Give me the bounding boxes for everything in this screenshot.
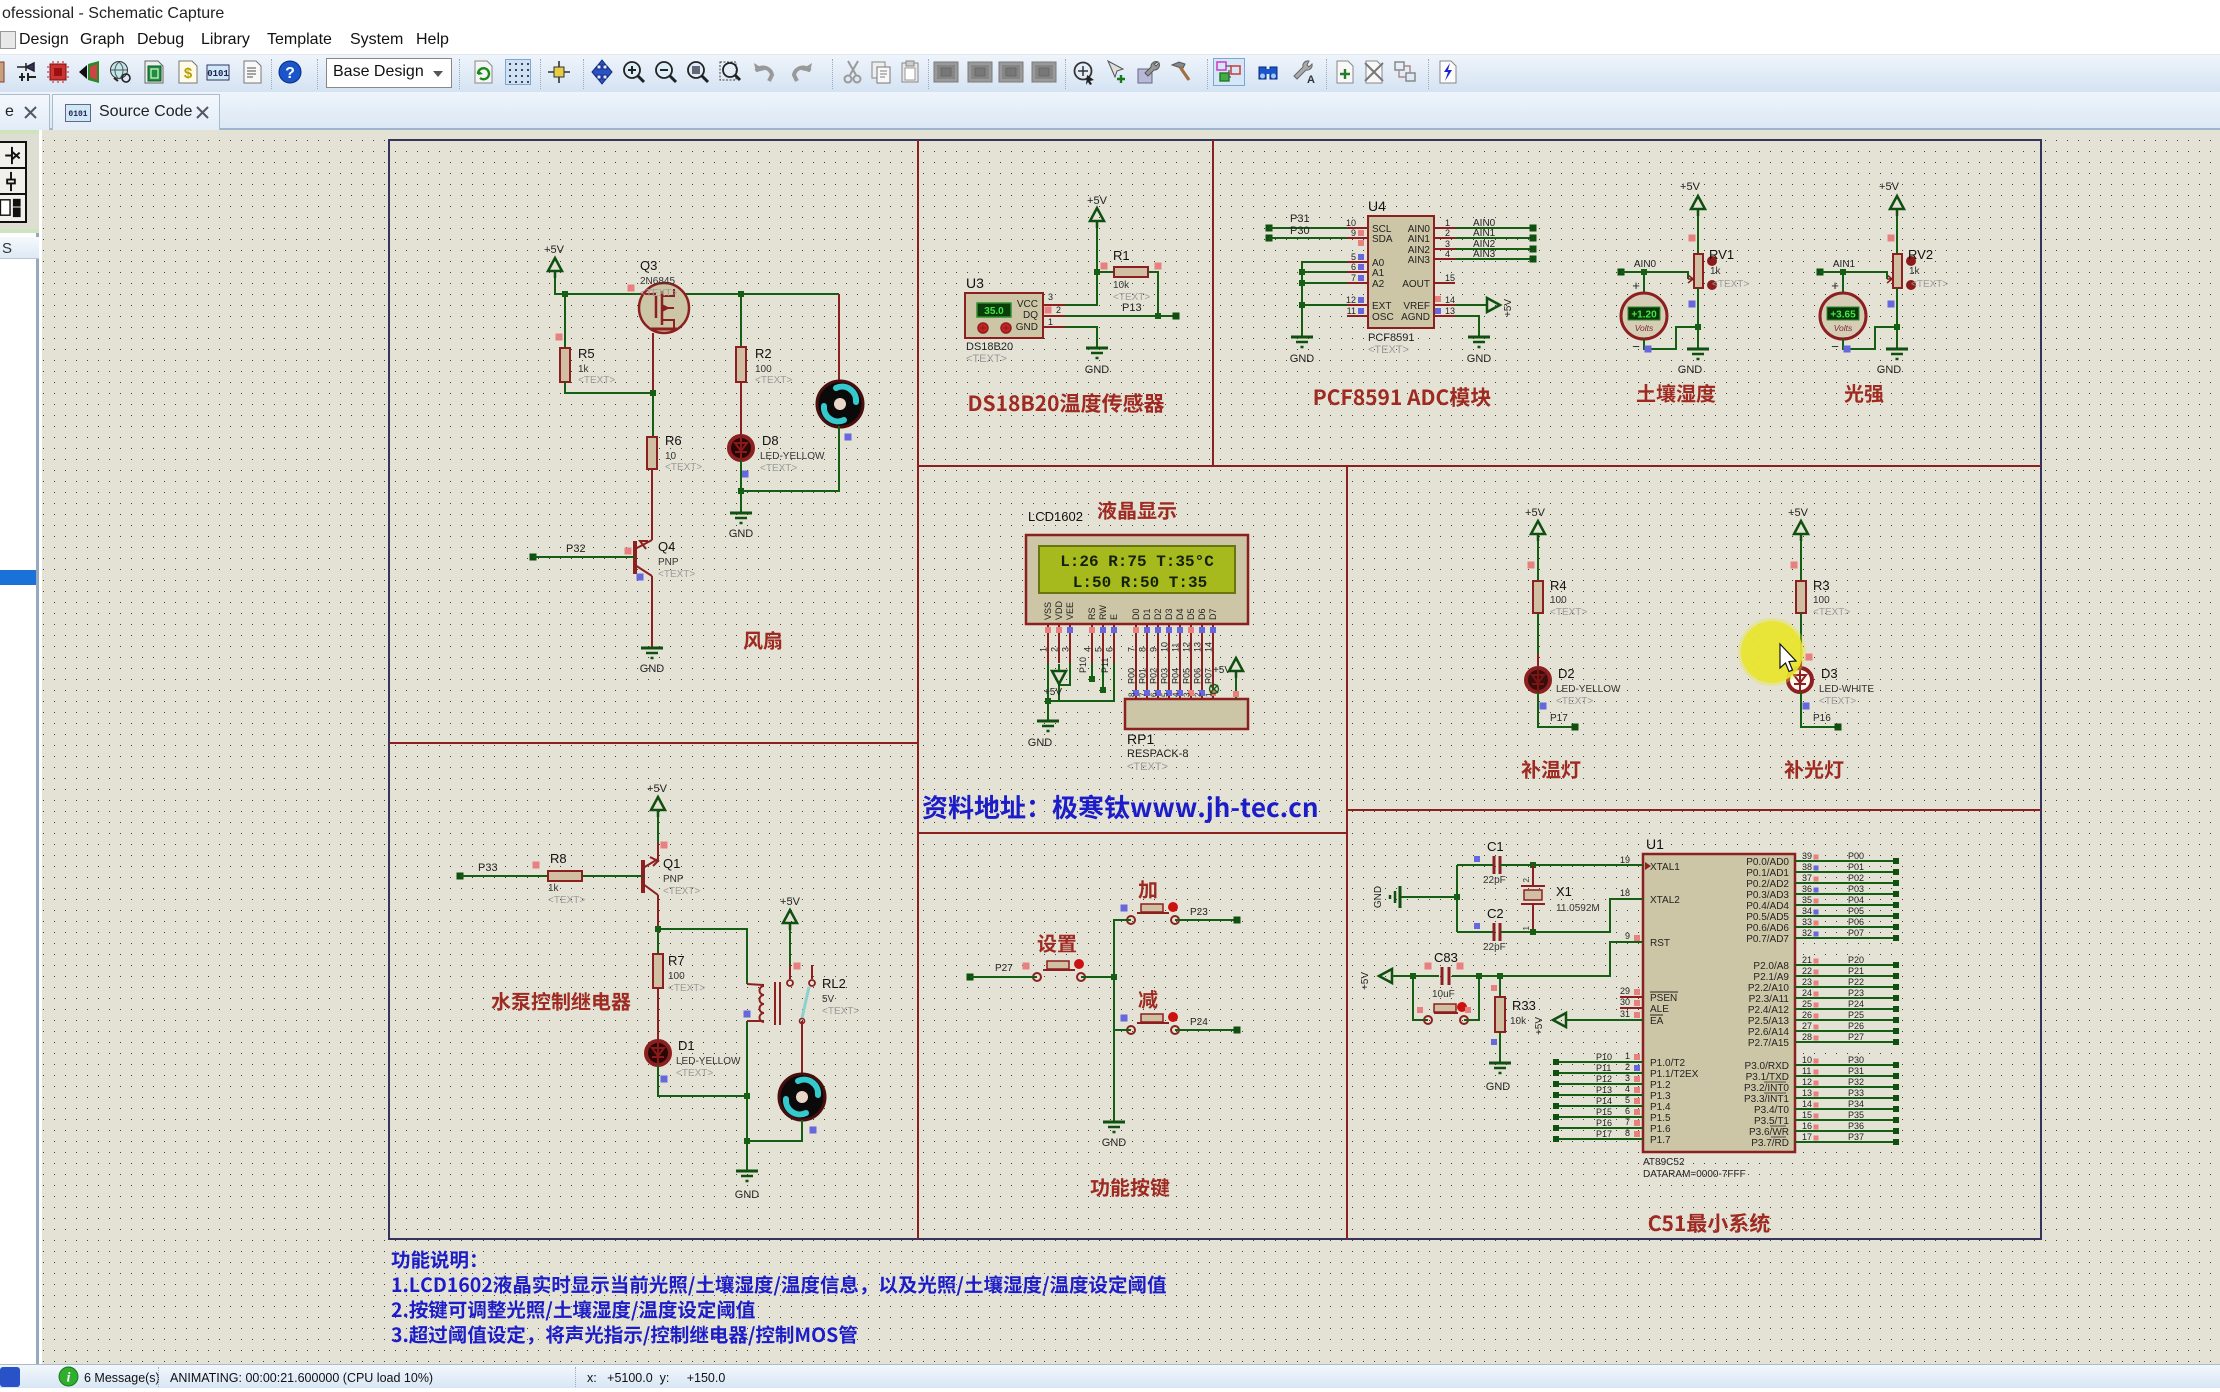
- svg-text:2: 2: [1445, 228, 1450, 238]
- voltmeter: [1621, 272, 1701, 354]
- svg-text:P31: P31: [1848, 1066, 1864, 1076]
- svg-text:RW: RW: [1098, 605, 1108, 620]
- svg-text:P06: P06: [1193, 668, 1203, 684]
- svg-text:+5V: +5V: [1525, 507, 1546, 519]
- svg-text:14: 14: [1802, 1099, 1812, 1109]
- label 功能按键: [1091, 1178, 1170, 1197]
- svg-text:−: −: [1632, 339, 1640, 354]
- wire motor to ground rail: [747, 1120, 802, 1171]
- wire AGND to ground: [1455, 316, 1479, 337]
- wire AIN1 net: [1817, 259, 1888, 279]
- label 液晶显示: [1098, 501, 1176, 520]
- svg-text:P05: P05: [1848, 906, 1864, 916]
- ground Q4: [640, 648, 665, 675]
- svg-text:21: 21: [1802, 955, 1812, 965]
- svg-text:P3.1/TXD: P3.1/TXD: [1746, 1072, 1789, 1083]
- resistor R4: [1528, 541, 1588, 618]
- U3 pin stubs: [1043, 292, 1065, 327]
- svg-text:9: 9: [1625, 931, 1630, 941]
- svg-text:+5V: +5V: [1087, 195, 1108, 207]
- wire +5V rail to fan: [555, 278, 839, 383]
- svg-text:P3.4/T0: P3.4/T0: [1754, 1105, 1789, 1116]
- svg-text:10: 10: [1346, 218, 1356, 228]
- wire RS RW E: [1048, 657, 1114, 701]
- transistor Q4 PNP: [625, 539, 696, 581]
- svg-text:PSEN: PSEN: [1650, 993, 1677, 1004]
- svg-text:22pF: 22pF: [1483, 942, 1506, 953]
- fan motor: [817, 381, 863, 441]
- svg-text:GND: GND: [1467, 353, 1492, 365]
- section divider V2: [1212, 140, 1214, 466]
- svg-text:23: 23: [1802, 977, 1812, 987]
- svg-text:AGND: AGND: [1401, 312, 1430, 323]
- svg-text:11: 11: [1802, 1066, 1811, 1076]
- svg-text:3: 3: [1625, 1073, 1630, 1083]
- svg-text:7: 7: [1127, 647, 1137, 652]
- svg-text:R2: R2: [755, 346, 772, 361]
- svg-text:30: 30: [1620, 997, 1630, 1007]
- svg-text:AIN1: AIN1: [1833, 259, 1856, 270]
- svg-text:P13: P13: [1122, 302, 1142, 314]
- svg-text:Q1: Q1: [663, 856, 680, 871]
- svg-text:<TEXT>: <TEXT>: [755, 375, 792, 386]
- svg-text:+5V: +5V: [1680, 181, 1701, 193]
- svg-text:P2.3/A11: P2.3/A11: [1749, 994, 1790, 1005]
- svg-text:15: 15: [1802, 1110, 1812, 1120]
- svg-text:Volts: Volts: [1834, 323, 1853, 333]
- svg-text:7: 7: [1139, 692, 1148, 697]
- wires AIN0-AIN3: [1455, 218, 1537, 263]
- wire R5 to node: [565, 382, 656, 396]
- svg-text:P1.4: P1.4: [1650, 1102, 1671, 1113]
- svg-text:P07: P07: [1848, 928, 1864, 938]
- svg-text:D1: D1: [1142, 608, 1152, 620]
- LED D2: [1526, 613, 1621, 710]
- svg-text:6: 6: [1105, 647, 1115, 652]
- svg-text:2: 2: [1050, 647, 1060, 652]
- svg-text:Q3: Q3: [640, 258, 657, 273]
- chip U4 PCF8591: [1368, 198, 1434, 356]
- section divider H1: [918, 465, 2041, 467]
- power +5V pump: [647, 783, 668, 817]
- ground fan branch: [729, 491, 754, 540]
- svg-text:GND: GND: [1085, 364, 1110, 376]
- svg-text:i: i: [67, 1370, 71, 1385]
- potentiometer RV1: [1688, 247, 1749, 308]
- svg-text:D7: D7: [1208, 608, 1218, 620]
- svg-text:13: 13: [1802, 1088, 1812, 1098]
- svg-text:<TEXT>: <TEXT>: [822, 1006, 859, 1017]
- svg-text:Q4: Q4: [658, 539, 675, 554]
- svg-text:R7: R7: [668, 953, 685, 968]
- svg-text:17: 17: [1802, 1132, 1812, 1142]
- svg-text:D0: D0: [1131, 608, 1141, 620]
- svg-text:L:50 R:50 T:35: L:50 R:50 T:35: [1073, 574, 1207, 592]
- svg-text:PCF8591: PCF8591: [1368, 332, 1414, 344]
- svg-text:6: 6: [1625, 1106, 1630, 1116]
- capacitor C2 22pF: [1457, 899, 1643, 953]
- wire P27 to button2: [967, 963, 1038, 981]
- svg-text:D8: D8: [762, 433, 779, 448]
- svg-text:<TEXT>: <TEXT>: [1712, 279, 1749, 290]
- svg-text:D6: D6: [1197, 608, 1207, 620]
- chip U1 AT89C52: [1643, 836, 1795, 1180]
- wires P0 port right: [1795, 851, 1899, 941]
- svg-text:5: 5: [1351, 252, 1356, 262]
- svg-text:P3.0/RXD: P3.0/RXD: [1745, 1061, 1789, 1072]
- svg-text:VREF: VREF: [1403, 301, 1430, 312]
- svg-text:P27: P27: [1848, 1032, 1864, 1042]
- svg-text:36: 36: [1802, 884, 1812, 894]
- power +5V EA (left arrow): [1534, 1013, 1643, 1035]
- push button K1 加: [1121, 902, 1180, 924]
- svg-text:P34: P34: [1848, 1099, 1864, 1109]
- wire +5V to Q1: [658, 817, 668, 862]
- svg-text:<TEXT>: <TEXT>: [1813, 607, 1850, 618]
- svg-text:+3.65: +3.65: [1830, 310, 1856, 321]
- label 加: [1138, 880, 1156, 899]
- svg-text:+5V: +5V: [1534, 1017, 1545, 1035]
- note 功能说明: [392, 1250, 1166, 1345]
- svg-text:AIN1: AIN1: [1473, 228, 1496, 239]
- svg-text:P13: P13: [1596, 1085, 1612, 1095]
- svg-text:<TEXT>: <TEXT>: [676, 1068, 713, 1079]
- svg-text:D3: D3: [1821, 666, 1838, 681]
- svg-text:<TEXT>: <TEXT>: [578, 375, 615, 386]
- wire R33 to ground: [1499, 1032, 1501, 1063]
- svg-text:C1: C1: [1487, 839, 1504, 854]
- svg-text:P20: P20: [1848, 955, 1864, 965]
- svg-text:?: ?: [285, 65, 295, 82]
- svg-text:<TEXT>: <TEXT>: [1550, 607, 1587, 618]
- power +5V relay: [780, 896, 801, 965]
- wire D1 to rail: [658, 1065, 750, 1099]
- svg-text:VEE: VEE: [1065, 602, 1075, 620]
- wire RST: [1479, 942, 1643, 976]
- svg-text:LCD1602: LCD1602: [1028, 509, 1083, 524]
- svg-text:15: 15: [1445, 273, 1455, 283]
- power +5V RP1: [1210, 658, 1244, 699]
- svg-text:13: 13: [1445, 306, 1455, 316]
- wire D3 to P16 terminal: [1801, 692, 1842, 731]
- U4 left pin stubs: [1346, 218, 1368, 316]
- svg-text:10: 10: [1160, 642, 1170, 652]
- power +5V fan: [544, 244, 565, 278]
- svg-text:P25: P25: [1848, 1010, 1864, 1020]
- wire D8/fan to ground rail: [738, 426, 839, 494]
- svg-text:P0.4/AD4: P0.4/AD4: [1746, 901, 1789, 912]
- label 水泵控制继电器: [491, 992, 630, 1011]
- power +5V AIN1: [1879, 181, 1904, 216]
- U1 left pin numbers: [1620, 855, 1640, 1138]
- svg-text:10: 10: [665, 451, 677, 462]
- svg-text:P23: P23: [1848, 988, 1864, 998]
- svg-text:GND: GND: [1486, 1081, 1511, 1093]
- svg-text:P24: P24: [1190, 1017, 1208, 1028]
- sheet border: [389, 140, 2041, 1239]
- svg-text:EXT: EXT: [1372, 301, 1391, 312]
- svg-text:12: 12: [1802, 1077, 1812, 1087]
- svg-text:22pF: 22pF: [1483, 875, 1506, 886]
- svg-text:−: −: [1831, 339, 1839, 354]
- transistor Q3 2N6845: [628, 258, 690, 333]
- svg-text:P32: P32: [1848, 1077, 1864, 1087]
- svg-text:100: 100: [1550, 595, 1567, 606]
- svg-text:6: 6: [1351, 262, 1356, 272]
- svg-text:5: 5: [1625, 1095, 1630, 1105]
- svg-text:35: 35: [1802, 895, 1812, 905]
- svg-text:18: 18: [1620, 888, 1630, 898]
- svg-text:100: 100: [755, 364, 772, 375]
- svg-text:0101: 0101: [207, 69, 229, 79]
- svg-text:9: 9: [1149, 647, 1159, 652]
- svg-text:X1: X1: [1556, 884, 1572, 899]
- wire +5V to pot: [1888, 216, 1898, 254]
- svg-text:12: 12: [1346, 295, 1356, 305]
- svg-text:<TEXT>: <TEXT>: [663, 886, 700, 897]
- svg-text:29: 29: [1620, 986, 1630, 996]
- svg-text:RS: RS: [1087, 607, 1097, 620]
- svg-text:P10: P10: [1078, 657, 1088, 673]
- label 资料地址: [923, 795, 1317, 823]
- wires P3 port right: [1795, 1055, 1899, 1145]
- svg-text:GND: GND: [729, 528, 754, 540]
- label 光强: [1844, 384, 1883, 403]
- svg-text:A: A: [1307, 74, 1315, 85]
- svg-text:P37: P37: [1848, 1132, 1864, 1142]
- potentiometer RV2: [1887, 247, 1948, 308]
- svg-text:2: 2: [1625, 1062, 1630, 1072]
- svg-text:1: 1: [1522, 925, 1531, 930]
- svg-text:R1: R1: [1113, 248, 1130, 263]
- pump motor: [779, 1021, 825, 1134]
- svg-text:R8: R8: [550, 851, 567, 866]
- LCD1602 display: [1026, 535, 1248, 624]
- svg-text:DQ: DQ: [1023, 310, 1038, 321]
- svg-text:1k: 1k: [1710, 266, 1722, 277]
- svg-text:<TEXT>: <TEXT>: [760, 463, 797, 474]
- svg-text:P11: P11: [1596, 1063, 1611, 1073]
- wire P30: [1266, 225, 1348, 242]
- svg-text:3: 3: [1061, 647, 1071, 652]
- wire pot to ground: [1697, 288, 1699, 349]
- label 补温灯: [1521, 760, 1580, 779]
- svg-text:P11: P11: [1100, 658, 1110, 673]
- svg-text:1: 1: [1625, 1051, 1630, 1061]
- section divider H3: [918, 832, 1347, 834]
- ground AIN1: [1877, 349, 1908, 376]
- svg-text:GND: GND: [1290, 353, 1315, 365]
- svg-text:GND: GND: [735, 1189, 760, 1201]
- svg-text:P3.2/INT0: P3.2/INT0: [1744, 1083, 1789, 1094]
- svg-text:<TEXT>: <TEXT>: [1127, 761, 1168, 773]
- crystal X1: [1521, 865, 1600, 932]
- svg-text:11.0592M: 11.0592M: [1556, 903, 1600, 914]
- wire Q4 emitter to ground: [651, 576, 653, 648]
- svg-text:<TEXT>: <TEXT>: [966, 353, 1007, 365]
- svg-text:AT89C52: AT89C52: [1643, 1157, 1685, 1168]
- svg-text:27: 27: [1802, 1021, 1812, 1031]
- svg-text:8: 8: [1138, 647, 1148, 652]
- svg-text:8: 8: [1128, 692, 1137, 697]
- svg-text:GND: GND: [1028, 737, 1053, 749]
- svg-text:35.0: 35.0: [984, 306, 1004, 317]
- svg-text:P1.0/T2: P1.0/T2: [1650, 1058, 1685, 1069]
- svg-text:P00: P00: [1127, 668, 1137, 684]
- svg-text:3: 3: [1183, 692, 1192, 697]
- wire address pins to ground: [1299, 262, 1347, 337]
- svg-text:RP1: RP1: [1127, 731, 1154, 747]
- svg-text:14: 14: [1445, 295, 1455, 305]
- LCD pin stubs and numbers: [1039, 624, 1217, 663]
- svg-text:37: 37: [1802, 873, 1812, 883]
- svg-text:P02: P02: [1848, 873, 1864, 883]
- svg-text:RESPACK-8: RESPACK-8: [1127, 748, 1189, 760]
- svg-text:P35: P35: [1848, 1110, 1864, 1120]
- svg-text:11: 11: [1347, 306, 1356, 316]
- wire button1 to P23: [1175, 907, 1241, 924]
- svg-text:<TEXT>: <TEXT>: [1556, 696, 1593, 707]
- wire Q3 drain down: [652, 333, 654, 393]
- svg-text:PNP: PNP: [658, 557, 679, 568]
- push button K3 减: [1121, 1012, 1180, 1034]
- svg-text:<TEXT>: <TEXT>: [548, 895, 585, 906]
- svg-text:P2.6/A14: P2.6/A14: [1748, 1027, 1790, 1038]
- svg-text:P27: P27: [995, 963, 1013, 974]
- svg-text:5: 5: [1161, 692, 1170, 697]
- svg-text:P01: P01: [1138, 668, 1148, 684]
- svg-text:38: 38: [1802, 862, 1812, 872]
- svg-text:33: 33: [1802, 917, 1812, 927]
- svg-text:32: 32: [1802, 928, 1812, 938]
- wire relay coil to rail: [744, 1021, 750, 1144]
- svg-text:1k: 1k: [578, 364, 590, 375]
- svg-text:GND: GND: [1102, 1137, 1127, 1149]
- svg-text:P2.0/A8: P2.0/A8: [1753, 961, 1789, 972]
- svg-text:+5V: +5V: [1879, 181, 1900, 193]
- svg-text:P1.3: P1.3: [1650, 1091, 1671, 1102]
- svg-text:EA: EA: [1650, 1016, 1664, 1027]
- section divider H2: [389, 742, 918, 744]
- svg-text:P0.2/AD2: P0.2/AD2: [1746, 879, 1789, 890]
- svg-text:DS18B20: DS18B20: [966, 341, 1013, 353]
- svg-text:10: 10: [1802, 1055, 1812, 1065]
- wire P32 to Q4 base: [530, 543, 636, 561]
- svg-text:GND: GND: [1877, 364, 1902, 376]
- svg-text:P1.5: P1.5: [1650, 1113, 1671, 1124]
- svg-text:GND: GND: [1016, 322, 1038, 333]
- cursor highlight glow: [1738, 618, 1806, 686]
- svg-text:U3: U3: [966, 275, 984, 291]
- svg-text:P1.6: P1.6: [1650, 1124, 1671, 1135]
- ground buttons: [1102, 1122, 1127, 1149]
- resistor R3: [1791, 541, 1851, 618]
- svg-text:D3: D3: [1164, 608, 1174, 620]
- power +5V LCD (down arrow): [1044, 664, 1066, 698]
- svg-text:+5V: +5V: [780, 896, 801, 908]
- svg-text:A2: A2: [1372, 279, 1385, 290]
- label 补光灯: [1784, 760, 1843, 779]
- resistor R6: [647, 393, 702, 473]
- wire Q1 collector down: [655, 895, 747, 984]
- wire VREF to +5V: [1455, 298, 1514, 317]
- svg-text:2: 2: [1522, 877, 1531, 882]
- svg-text:R4: R4: [1550, 578, 1567, 593]
- svg-text:100: 100: [668, 971, 685, 982]
- svg-text:E: E: [1109, 614, 1119, 620]
- svg-text:0101: 0101: [68, 110, 87, 119]
- wires P1 port left: [1553, 1052, 1643, 1142]
- ground U4 right: [1467, 337, 1492, 365]
- svg-text:7: 7: [1625, 1117, 1630, 1127]
- svg-text:GND: GND: [1373, 886, 1384, 908]
- svg-text:P0.3/AD3: P0.3/AD3: [1746, 890, 1789, 901]
- svg-text:<TEXT>: <TEXT>: [668, 983, 705, 994]
- mouse cursor: [1780, 644, 1796, 672]
- svg-text:PNP: PNP: [663, 874, 684, 885]
- svg-text:GND: GND: [640, 663, 665, 675]
- svg-text:VCC: VCC: [1017, 299, 1038, 310]
- ground R33: [1486, 1063, 1511, 1093]
- wire P31: [1266, 213, 1348, 232]
- svg-text:AIN3: AIN3: [1408, 255, 1431, 266]
- svg-text:P0.7/AD7: P0.7/AD7: [1746, 934, 1789, 945]
- resistor R1: [1097, 248, 1162, 303]
- power +5V C83 (left arrow): [1360, 969, 1413, 990]
- wire button3 left / down to ground: [1114, 977, 1131, 1122]
- svg-text:25: 25: [1802, 999, 1812, 1009]
- svg-text:P12: P12: [1596, 1074, 1612, 1084]
- push button K2 设置: [1033, 959, 1085, 981]
- label 风扇: [744, 631, 782, 650]
- svg-text:RV2: RV2: [1908, 247, 1933, 262]
- svg-text:14: 14: [1204, 642, 1214, 652]
- ground AIN0: [1678, 349, 1709, 376]
- svg-text:12: 12: [1182, 642, 1192, 652]
- svg-text:OSC: OSC: [1372, 312, 1394, 323]
- wire button3 to P24: [1175, 1017, 1241, 1034]
- svg-text:4: 4: [1083, 647, 1093, 652]
- svg-text:39: 39: [1802, 851, 1812, 861]
- svg-text:LED-YELLOW: LED-YELLOW: [760, 451, 825, 462]
- wire GND pin: [1065, 327, 1097, 348]
- svg-text:XTAL1: XTAL1: [1650, 862, 1680, 873]
- svg-text:D1: D1: [678, 1038, 695, 1053]
- svg-text:1k: 1k: [548, 883, 560, 894]
- wire VSS/VDD/VEE to +5V/GND: [1045, 663, 1070, 721]
- svg-text:P3.3/INT1: P3.3/INT1: [1744, 1094, 1789, 1105]
- svg-text:34: 34: [1802, 906, 1812, 916]
- svg-text:AIN1: AIN1: [1408, 234, 1431, 245]
- svg-text:U4: U4: [1368, 198, 1386, 214]
- svg-text:P3.7/RD: P3.7/RD: [1751, 1138, 1789, 1149]
- svg-text:P24: P24: [1848, 999, 1864, 1009]
- svg-text:13: 13: [1193, 642, 1203, 652]
- svg-text:D5: D5: [1186, 608, 1196, 620]
- svg-text:1: 1: [1048, 317, 1053, 327]
- svg-text:P05: P05: [1182, 668, 1192, 684]
- svg-text:<TEXT>: <TEXT>: [640, 288, 677, 299]
- wire pot to ground: [1896, 288, 1898, 349]
- wire R1 to P13 net: [1148, 272, 1161, 319]
- svg-text:P1.7: P1.7: [1650, 1135, 1671, 1146]
- ground LCD: [1028, 721, 1059, 749]
- power +5V DS18B20: [1087, 195, 1108, 228]
- ground DS18B20: [1085, 348, 1110, 376]
- wires P2 port right: [1795, 955, 1899, 1045]
- svg-text:P32: P32: [566, 543, 586, 555]
- svg-text:7: 7: [1351, 273, 1356, 283]
